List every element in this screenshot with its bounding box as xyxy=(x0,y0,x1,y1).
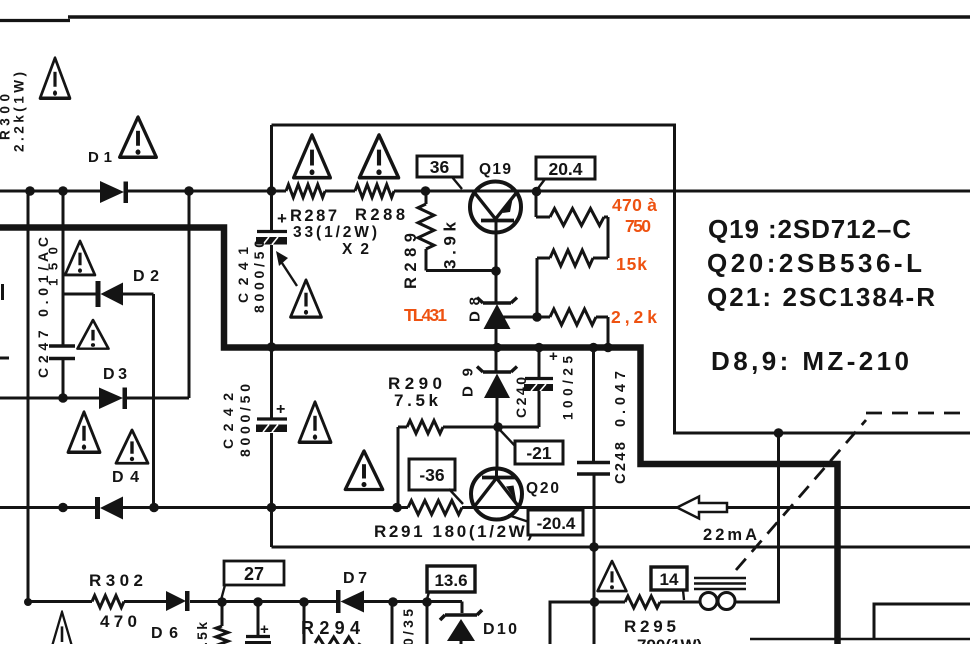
junction dot C248 bottom xyxy=(589,542,599,552)
svg-text:Q19: Q19 xyxy=(479,161,511,178)
capacitor C248 xyxy=(577,371,629,484)
svg-text:Q20: Q20 xyxy=(526,480,559,497)
wire box bottom rail y=547 xyxy=(272,546,970,549)
warning triangle bottom-left (cut) xyxy=(50,612,74,649)
svg-text:+: + xyxy=(276,401,285,418)
wire C248 column x=594 xyxy=(592,348,596,645)
callout box 27 xyxy=(221,561,284,600)
svg-text:150: 150 xyxy=(46,247,61,286)
resistor 1.5k below node (cut) xyxy=(194,622,228,649)
resistor R290 7.5k xyxy=(388,374,498,508)
wire left margin stubs xyxy=(0,284,9,358)
annotation 15k (orange) xyxy=(616,254,647,274)
junction dot D3 node xyxy=(58,393,68,403)
diode D7 xyxy=(336,570,367,613)
svg-text:10/35: 10/35 xyxy=(400,609,416,644)
annotation 470 a 750 (orange) xyxy=(612,195,657,236)
capacitor C247 xyxy=(35,237,75,378)
junction dots positive rail xyxy=(25,186,541,196)
svg-text:14: 14 xyxy=(660,570,679,589)
diode D4 xyxy=(95,469,139,520)
svg-text:790(1W): 790(1W) xyxy=(637,636,702,644)
svg-text:D10: D10 xyxy=(483,621,517,638)
resistor R287 xyxy=(286,185,337,226)
warning triangles between D3 and D4 xyxy=(68,412,100,452)
resistor 470-750 (orange annotated chain) xyxy=(536,191,608,258)
wire from transformer up to node y=433 xyxy=(746,433,779,602)
warning triangle lower box xyxy=(345,451,382,490)
warning triangle top-left xyxy=(40,58,70,98)
junction dot Q20 base node xyxy=(493,422,503,432)
resistor R291 180(1/2W) xyxy=(374,501,533,542)
svg-text:3.9k: 3.9k xyxy=(441,221,460,269)
junction dot Q19 base / R289 xyxy=(491,266,501,276)
warning triangle below C241 xyxy=(291,280,322,317)
wire bottom rail y=602 right section with corner x=550 xyxy=(550,602,746,644)
annotation TL431 (orange) xyxy=(404,305,447,325)
warning triangle near 14 box xyxy=(598,561,627,591)
wire thick ground bus (heavy L-shaped trace) xyxy=(0,228,838,648)
svg-text:-21: -21 xyxy=(526,443,552,463)
zener diode D9 xyxy=(460,367,518,471)
svg-text:R291 180(1/2W): R291 180(1/2W) xyxy=(374,522,533,541)
svg-text:R287: R287 xyxy=(290,207,337,225)
svg-text:+: + xyxy=(277,209,287,228)
junction dots negative rail xyxy=(58,503,402,513)
capacitor 10/35 rotated label (cut) xyxy=(400,609,416,649)
label transistor types xyxy=(707,214,935,312)
zener diode D8 xyxy=(467,297,518,372)
svg-text:-36: -36 xyxy=(419,465,445,485)
svg-text:36: 36 xyxy=(430,157,450,177)
callout box 36 xyxy=(417,156,462,189)
transistor Q20 xyxy=(471,469,559,520)
warning triangle near D1 xyxy=(120,117,157,157)
junction dot divider node xyxy=(532,312,542,322)
warning triangle above D3 xyxy=(78,320,109,349)
wire vertical x=63 through C247 xyxy=(62,191,65,398)
warning triangle left column upper xyxy=(65,241,95,275)
resistor 2.2k xyxy=(503,309,608,348)
capacitor bottom (cut, polarized) xyxy=(245,621,271,644)
svg-text:-20.4: -20.4 xyxy=(537,514,576,533)
wire Q19 base lead down to D8 xyxy=(495,221,498,303)
svg-text:15k: 15k xyxy=(616,254,647,274)
svg-text:750: 750 xyxy=(625,216,651,236)
resistor R300 label (edge, rotated) xyxy=(0,72,27,152)
diode D2 xyxy=(96,268,160,307)
warning triangles above R287 R288 xyxy=(294,135,331,178)
wire bottom-right cut box xyxy=(750,604,970,639)
junction dots bottom rail xyxy=(24,597,599,607)
svg-text:470 à: 470 à xyxy=(612,195,657,215)
resistor R288 xyxy=(355,185,405,225)
label zener types xyxy=(711,346,909,376)
diode D6 xyxy=(151,591,190,642)
wire vertical x=189 (D1 output to D3 wire) xyxy=(188,191,191,398)
resistor R294 (cut) xyxy=(301,618,360,649)
transformer T (choke with core) xyxy=(694,578,746,610)
callout box 20.4 top xyxy=(536,157,595,189)
callout box -20.4 xyxy=(508,510,583,535)
callout box -36 xyxy=(409,459,463,504)
svg-text:+: + xyxy=(260,621,269,638)
wire negative rail y=507 xyxy=(0,506,970,509)
wire D2 branch xyxy=(63,294,154,508)
callout box -21 xyxy=(500,430,563,464)
capacitor C240 (electrolytic) xyxy=(498,348,576,428)
svg-text:27: 27 xyxy=(244,564,264,584)
svg-text:Q19 :2SD712–C: Q19 :2SD712–C xyxy=(708,214,911,244)
capacitor C241 (electrolytic) xyxy=(235,209,287,313)
resistor R302 xyxy=(89,571,143,631)
wire D10 drop xyxy=(461,602,464,614)
diode D3 xyxy=(99,366,127,409)
svg-text:2.2k(1W): 2.2k(1W) xyxy=(12,72,27,152)
svg-text:2,2k: 2,2k xyxy=(611,307,657,327)
zener diode D10 xyxy=(440,610,517,644)
svg-text:1.5k: 1.5k xyxy=(194,622,210,644)
transistor Q19 xyxy=(469,161,522,233)
wire D3 row y=398 xyxy=(0,397,189,400)
dashed mechanical link xyxy=(736,413,970,570)
wire positive rail y=191 xyxy=(0,190,970,193)
wire top border bus xyxy=(0,17,970,21)
svg-text:7.5k: 7.5k xyxy=(394,391,439,410)
wire bottom rail y=602 left section xyxy=(28,600,462,603)
annotation arrow to C241 xyxy=(276,251,297,286)
callout box 14 xyxy=(651,567,687,600)
wire regulator box left edge segments (through C241/C242) xyxy=(270,125,273,547)
svg-text:33(1/2W): 33(1/2W) xyxy=(293,224,377,241)
resistor R295 xyxy=(624,596,702,649)
svg-text:470: 470 xyxy=(100,612,137,631)
junction dot output node xyxy=(774,428,784,438)
callout box 13.6 xyxy=(427,566,476,601)
label R287/R288 value xyxy=(293,224,377,258)
svg-text:Q21: 2SC1384-R: Q21: 2SC1384-R xyxy=(707,282,935,312)
junction dots mid bus xyxy=(267,342,613,352)
arrow 22mA xyxy=(677,497,757,545)
wire vertical x=28 from positive rail to bottom rail xyxy=(27,191,30,602)
diode D1 xyxy=(88,149,128,203)
wire bottom vertical drops xyxy=(222,602,427,644)
svg-text:13.6: 13.6 xyxy=(434,571,467,590)
warning triangle right of C242 xyxy=(299,402,331,442)
resistor R289 (vertical 3.9k) xyxy=(402,191,496,289)
capacitor C242 (electrolytic) xyxy=(220,384,287,457)
svg-text:TL431: TL431 xyxy=(404,305,447,325)
svg-text:+: + xyxy=(549,348,558,365)
svg-text:22mA: 22mA xyxy=(703,526,757,544)
wire regulator box outline and output wire y=433 xyxy=(272,125,970,433)
svg-text:D8,9: MZ-210: D8,9: MZ-210 xyxy=(711,346,909,376)
annotation 2,2k (orange) xyxy=(611,307,657,327)
svg-text:20.4: 20.4 xyxy=(548,159,582,179)
resistor 15k xyxy=(537,250,608,317)
